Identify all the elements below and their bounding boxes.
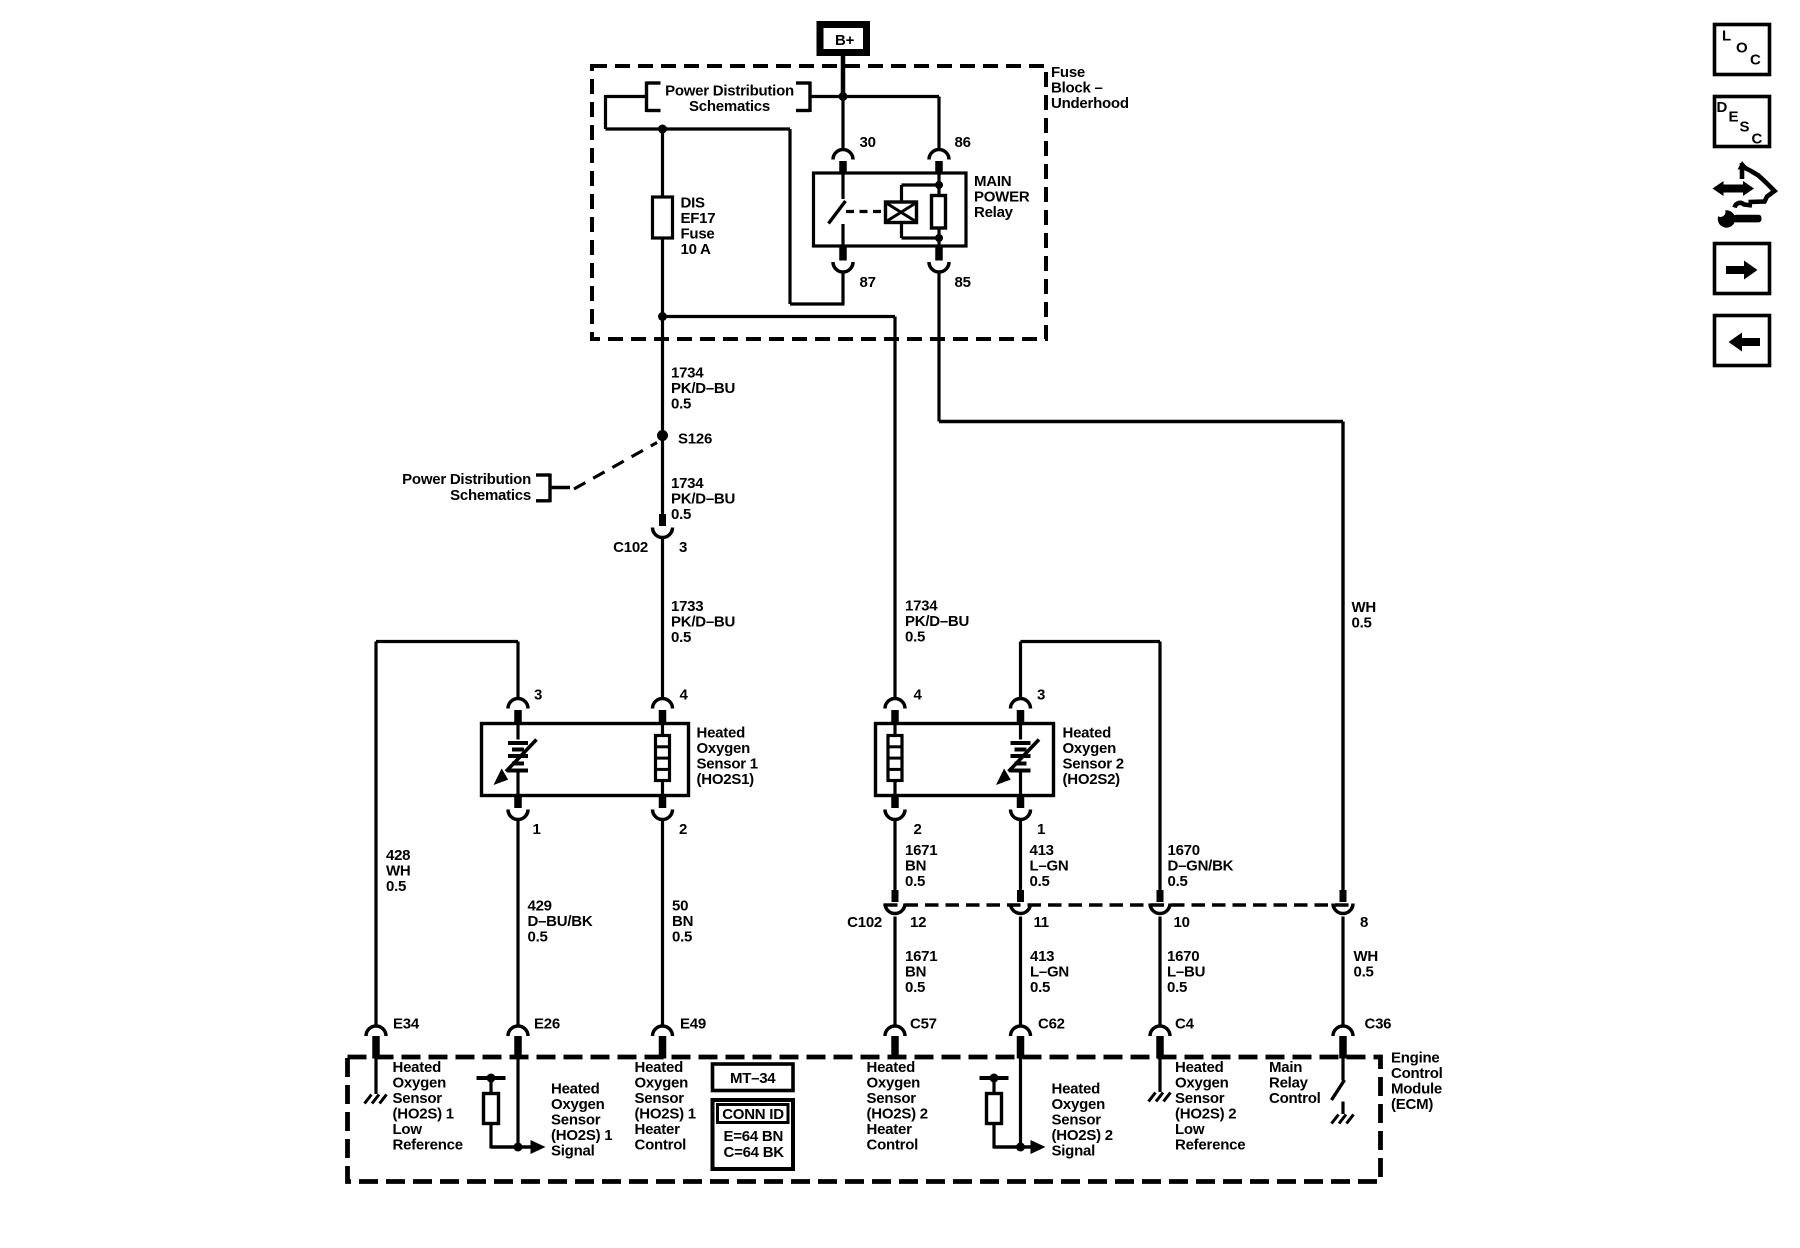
svg-text:C=64 BK: C=64 BK <box>724 1144 785 1161</box>
svg-text:(ECM): (ECM) <box>1391 1096 1433 1113</box>
svg-text:50: 50 <box>672 898 688 915</box>
svg-text:1671: 1671 <box>905 948 937 965</box>
svg-text:PK/D–BU: PK/D–BU <box>671 380 735 397</box>
svg-text:3: 3 <box>679 539 687 556</box>
svg-text:Reference: Reference <box>1175 1137 1245 1154</box>
svg-text:0.5: 0.5 <box>671 629 691 646</box>
svg-text:1734: 1734 <box>905 598 938 615</box>
svg-text:O: O <box>1736 40 1748 57</box>
svg-text:(HO2S1): (HO2S1) <box>697 771 755 788</box>
svg-text:30: 30 <box>860 134 876 151</box>
svg-text:1733: 1733 <box>671 598 703 615</box>
svg-text:1670: 1670 <box>1168 842 1200 859</box>
svg-text:86: 86 <box>955 134 971 151</box>
svg-text:E: E <box>1729 109 1739 126</box>
svg-text:Oxygen: Oxygen <box>1063 740 1117 757</box>
svg-text:0.5: 0.5 <box>1167 979 1187 996</box>
svg-text:85: 85 <box>955 274 971 291</box>
svg-text:428: 428 <box>386 847 410 864</box>
svg-text:BN: BN <box>905 858 926 875</box>
svg-text:Reference: Reference <box>393 1137 463 1154</box>
svg-text:0.5: 0.5 <box>1354 964 1374 981</box>
svg-text:MAIN: MAIN <box>974 173 1011 190</box>
svg-text:1670: 1670 <box>1167 948 1199 965</box>
svg-text:C57: C57 <box>910 1016 937 1033</box>
svg-text:PK/D–BU: PK/D–BU <box>905 613 969 630</box>
svg-text:Control: Control <box>867 1137 919 1154</box>
svg-text:2: 2 <box>679 821 687 838</box>
svg-text:0.5: 0.5 <box>528 929 548 946</box>
svg-text:11: 11 <box>1034 914 1049 931</box>
svg-text:Fuse: Fuse <box>681 226 715 243</box>
svg-text:L–GN: L–GN <box>1030 964 1069 981</box>
svg-text:1734: 1734 <box>671 475 704 492</box>
svg-text:10: 10 <box>1174 914 1190 931</box>
svg-text:413: 413 <box>1030 842 1054 859</box>
svg-text:Relay: Relay <box>974 204 1014 221</box>
svg-text:0.5: 0.5 <box>905 979 925 996</box>
svg-text:(HO2S) 1: (HO2S) 1 <box>393 1106 454 1123</box>
svg-text:Control: Control <box>635 1137 687 1154</box>
svg-text:Sensor: Sensor <box>635 1090 685 1107</box>
svg-text:Heated: Heated <box>697 725 746 742</box>
svg-text:0.5: 0.5 <box>1030 979 1050 996</box>
svg-text:0.5: 0.5 <box>386 878 406 895</box>
svg-text:Sensor 1: Sensor 1 <box>697 756 758 773</box>
svg-text:D–GN/BK: D–GN/BK <box>1168 858 1234 875</box>
svg-text:1: 1 <box>1037 821 1045 838</box>
svg-text:C102: C102 <box>847 914 882 931</box>
svg-text:Underhood: Underhood <box>1051 95 1129 112</box>
svg-text:Relay: Relay <box>1269 1075 1309 1092</box>
svg-text:Heated: Heated <box>867 1059 916 1076</box>
svg-text:1734: 1734 <box>671 365 704 382</box>
svg-text:Sensor: Sensor <box>393 1090 443 1107</box>
svg-text:(HO2S2): (HO2S2) <box>1063 771 1121 788</box>
svg-text:429: 429 <box>528 898 552 915</box>
svg-text:1671: 1671 <box>905 842 937 859</box>
svg-text:3: 3 <box>1037 687 1045 704</box>
svg-text:L–BU: L–BU <box>1167 964 1205 981</box>
svg-text:Heated: Heated <box>1052 1081 1101 1098</box>
svg-text:1: 1 <box>533 821 541 838</box>
svg-text:4: 4 <box>680 687 689 704</box>
svg-text:L–GN: L–GN <box>1030 858 1069 875</box>
svg-text:MT–34: MT–34 <box>730 1070 776 1087</box>
svg-text:E34: E34 <box>393 1016 420 1033</box>
svg-text:(HO2S) 2: (HO2S) 2 <box>1052 1127 1113 1144</box>
svg-text:Oxygen: Oxygen <box>393 1075 447 1092</box>
svg-text:0.5: 0.5 <box>905 873 925 890</box>
svg-text:E26: E26 <box>534 1016 560 1033</box>
svg-text:DIS: DIS <box>681 195 706 212</box>
svg-text:Schematics: Schematics <box>450 487 531 504</box>
svg-text:Sensor: Sensor <box>1052 1112 1102 1129</box>
svg-text:D–BU/BK: D–BU/BK <box>528 913 593 930</box>
svg-text:Fuse: Fuse <box>1051 64 1085 81</box>
svg-text:CONN ID: CONN ID <box>722 1106 784 1123</box>
svg-text:Sensor 2: Sensor 2 <box>1063 756 1124 773</box>
svg-text:Oxygen: Oxygen <box>551 1096 605 1113</box>
svg-text:Oxygen: Oxygen <box>867 1075 921 1092</box>
svg-text:WH: WH <box>1352 599 1377 616</box>
svg-text:(HO2S) 2: (HO2S) 2 <box>867 1106 928 1123</box>
svg-text:C: C <box>1752 131 1763 148</box>
svg-text:Heater: Heater <box>635 1121 681 1138</box>
svg-text:BN: BN <box>672 913 693 930</box>
svg-text:S: S <box>1740 119 1750 136</box>
svg-text:(HO2S) 1: (HO2S) 1 <box>551 1127 612 1144</box>
svg-text:Oxygen: Oxygen <box>697 740 751 757</box>
svg-text:Signal: Signal <box>1052 1143 1096 1160</box>
svg-text:S126: S126 <box>678 431 712 448</box>
svg-text:4: 4 <box>914 687 923 704</box>
svg-text:10 A: 10 A <box>681 241 712 258</box>
svg-text:0.5: 0.5 <box>1168 873 1188 890</box>
svg-text:C36: C36 <box>1365 1016 1392 1033</box>
svg-text:0.5: 0.5 <box>671 506 691 523</box>
svg-text:EF17: EF17 <box>681 210 716 227</box>
svg-text:413: 413 <box>1030 948 1054 965</box>
svg-text:Schematics: Schematics <box>689 98 770 115</box>
svg-text:12: 12 <box>910 914 926 931</box>
svg-text:0.5: 0.5 <box>1030 873 1050 890</box>
svg-text:WH: WH <box>386 863 411 880</box>
svg-text:3: 3 <box>534 687 542 704</box>
svg-text:Sensor: Sensor <box>1175 1090 1225 1107</box>
svg-text:PK/D–BU: PK/D–BU <box>671 614 735 631</box>
svg-text:Oxygen: Oxygen <box>1175 1075 1229 1092</box>
svg-text:0.5: 0.5 <box>905 629 925 646</box>
svg-text:Block –: Block – <box>1051 80 1103 97</box>
svg-text:87: 87 <box>860 274 876 291</box>
svg-text:Oxygen: Oxygen <box>635 1075 689 1092</box>
svg-text:E49: E49 <box>680 1016 706 1033</box>
svg-text:Heated: Heated <box>551 1081 600 1098</box>
svg-text:0.5: 0.5 <box>671 396 691 413</box>
svg-text:C4: C4 <box>1175 1016 1195 1033</box>
svg-text:Heated: Heated <box>635 1059 684 1076</box>
svg-text:Engine: Engine <box>1391 1050 1440 1067</box>
svg-text:Power Distribution: Power Distribution <box>665 83 794 100</box>
svg-text:2: 2 <box>914 821 922 838</box>
svg-text:B+: B+ <box>835 32 855 49</box>
svg-text:POWER: POWER <box>974 189 1030 206</box>
svg-text:PK/D–BU: PK/D–BU <box>671 491 735 508</box>
svg-text:E=64 BN: E=64 BN <box>724 1128 784 1145</box>
svg-text:Heated: Heated <box>1175 1059 1224 1076</box>
svg-text:Heated: Heated <box>393 1059 442 1076</box>
svg-text:WH: WH <box>1354 948 1379 965</box>
svg-text:8: 8 <box>1360 914 1368 931</box>
svg-text:Sensor: Sensor <box>867 1090 917 1107</box>
svg-text:Oxygen: Oxygen <box>1052 1096 1106 1113</box>
svg-text:0.5: 0.5 <box>672 929 692 946</box>
svg-text:Power Distribution: Power Distribution <box>402 471 531 488</box>
svg-text:Low: Low <box>393 1121 423 1138</box>
svg-text:L: L <box>1722 28 1731 45</box>
svg-text:D: D <box>1717 99 1728 116</box>
svg-text:Low: Low <box>1175 1121 1205 1138</box>
svg-text:C: C <box>1750 52 1761 69</box>
svg-text:Sensor: Sensor <box>551 1112 601 1129</box>
svg-text:Heated: Heated <box>1063 725 1112 742</box>
svg-text:Module: Module <box>1391 1081 1442 1098</box>
svg-text:Main: Main <box>1269 1059 1302 1076</box>
svg-text:C62: C62 <box>1038 1016 1065 1033</box>
svg-text:Heater: Heater <box>867 1121 913 1138</box>
svg-text:C102: C102 <box>613 539 648 556</box>
svg-text:Control: Control <box>1269 1090 1321 1107</box>
svg-text:Control: Control <box>1391 1065 1443 1082</box>
svg-text:BN: BN <box>905 964 926 981</box>
svg-text:(HO2S) 2: (HO2S) 2 <box>1175 1106 1236 1123</box>
svg-text:0.5: 0.5 <box>1352 615 1372 632</box>
svg-text:Signal: Signal <box>551 1143 595 1160</box>
svg-text:(HO2S) 1: (HO2S) 1 <box>635 1106 696 1123</box>
